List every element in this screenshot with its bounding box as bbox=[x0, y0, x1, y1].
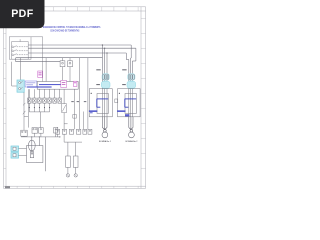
svg-text:BOMBA No.2: BOMBA No.2 bbox=[125, 140, 138, 143]
svg-text:CON CARCAMO DE TORMENTAS: CON CARCAMO DE TORMENTAS bbox=[50, 28, 79, 32]
svg-text:PDF: PDF bbox=[11, 8, 34, 20]
svg-text:BOMBA No.1: BOMBA No.1 bbox=[99, 140, 112, 143]
